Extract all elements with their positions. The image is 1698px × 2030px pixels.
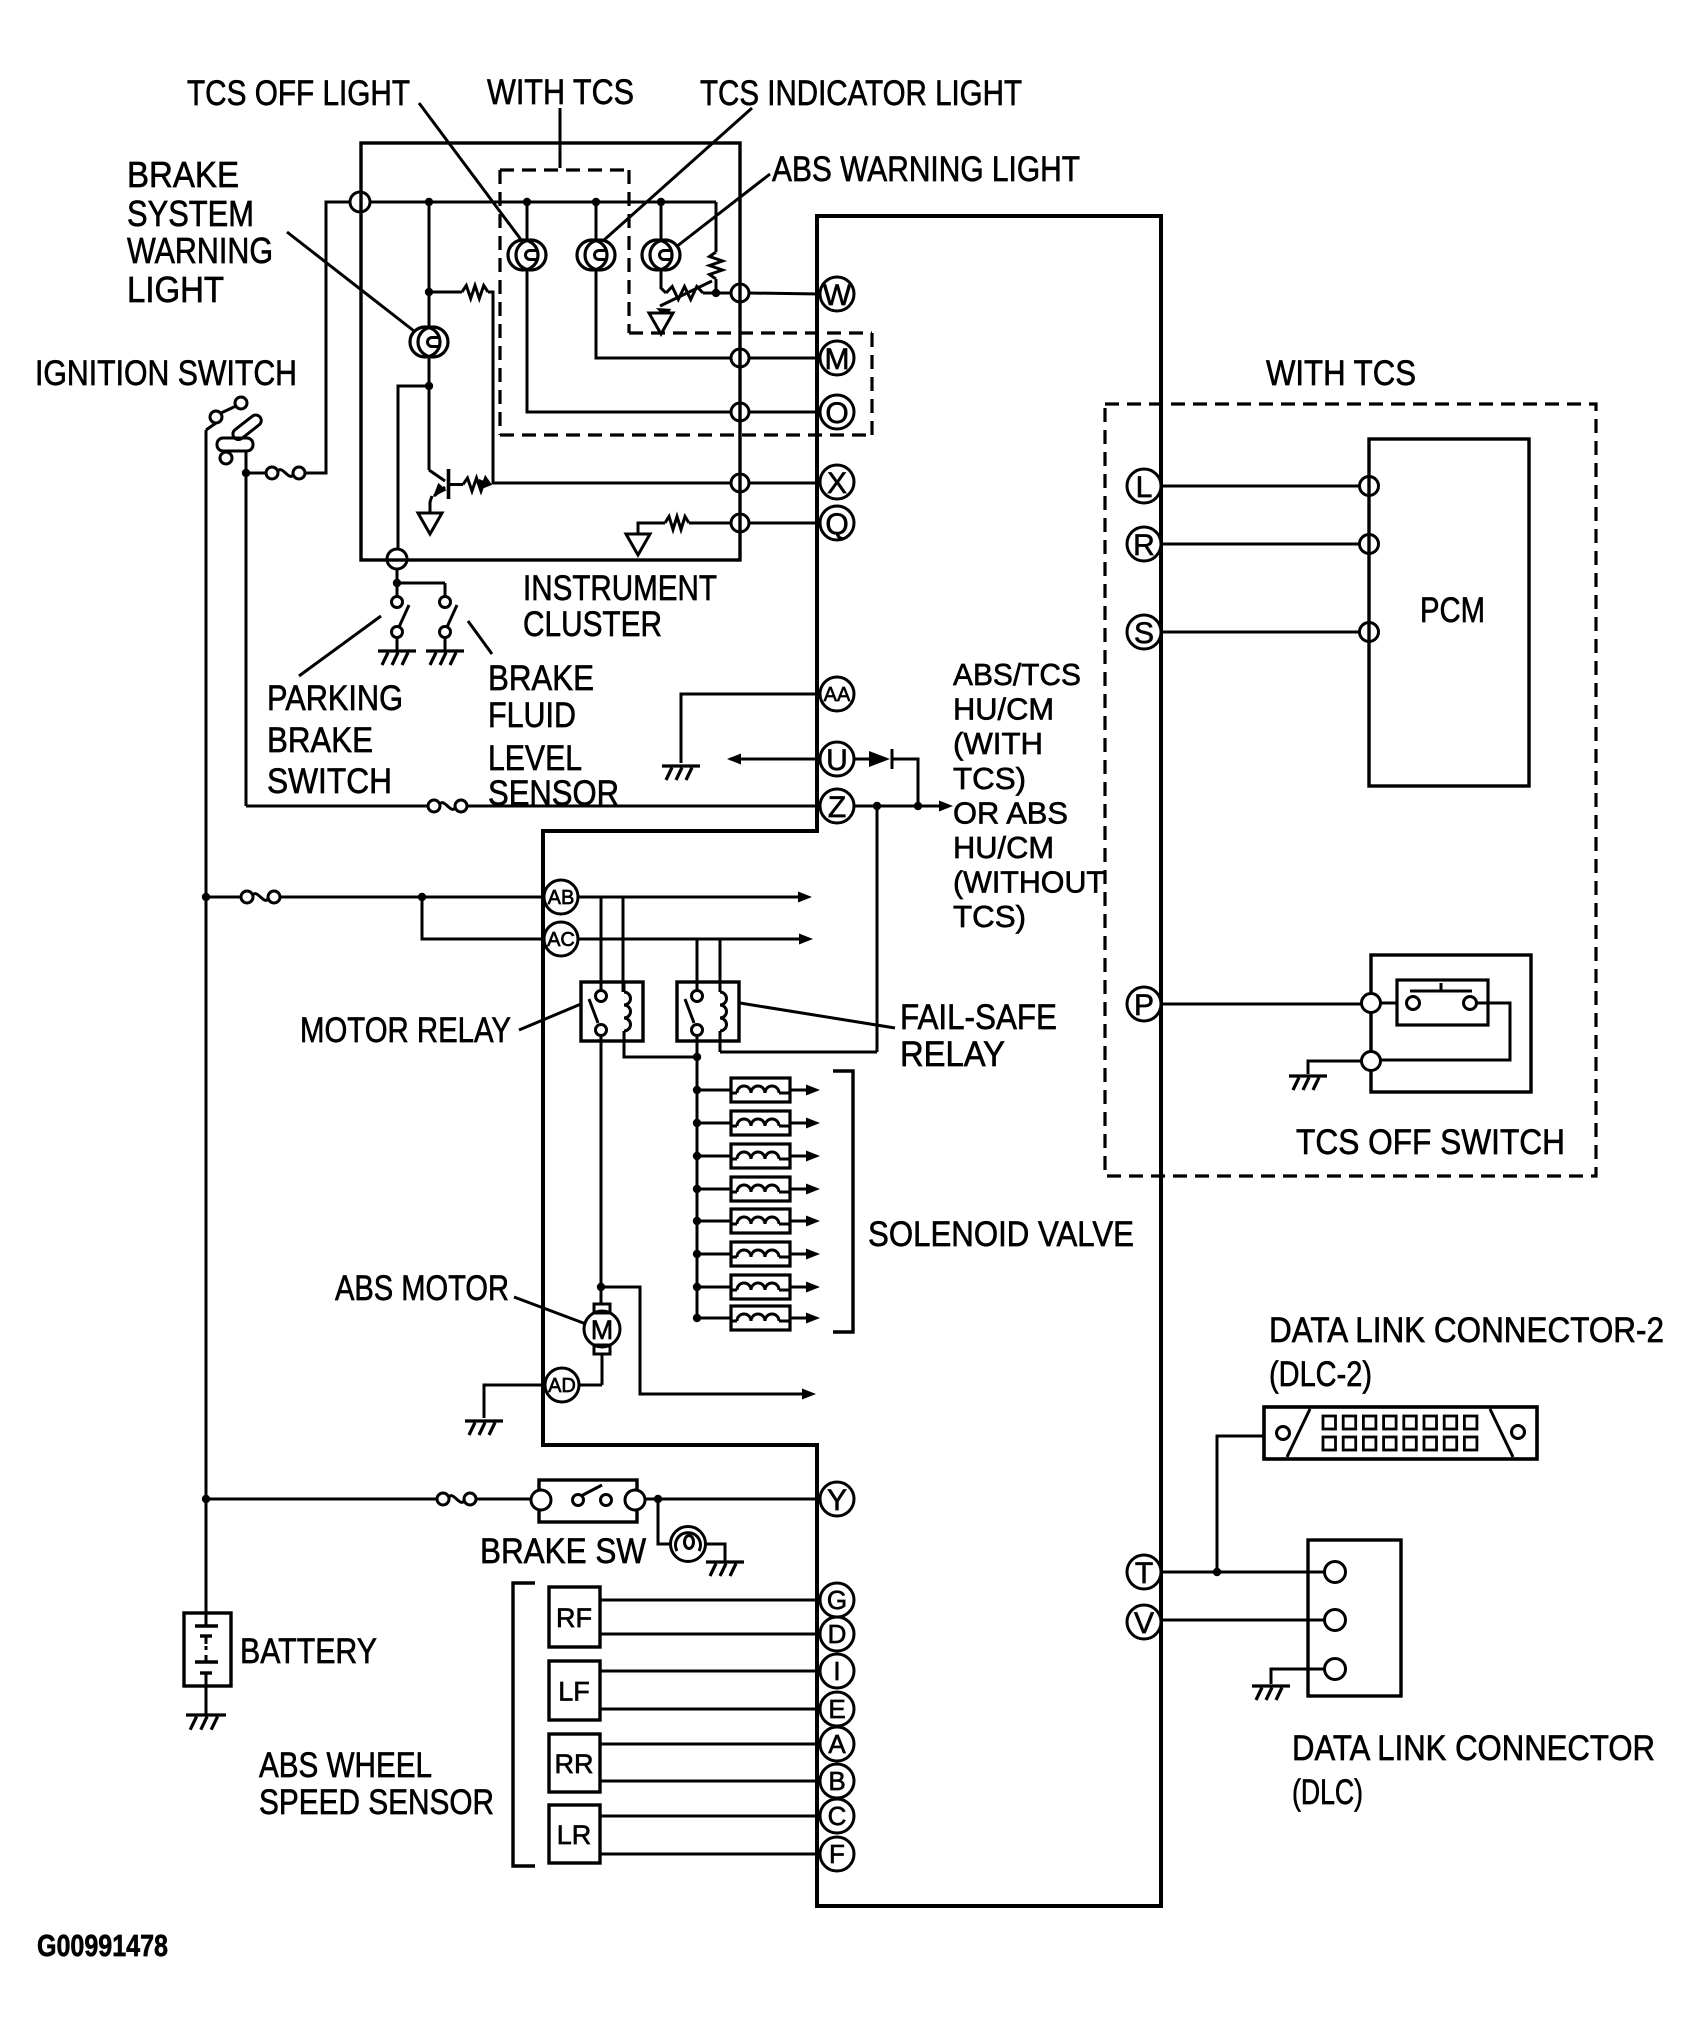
arrowhead solenoid 7 <box>806 1282 820 1293</box>
wire lamp supply bus <box>370 201 716 204</box>
junction solenoid 6 tap <box>693 1250 701 1258</box>
rheostat wiper <box>660 281 712 306</box>
wire connector to terminal Z <box>467 805 820 808</box>
wire to terminal Z <box>246 805 428 808</box>
wire lamp to transistor collector <box>428 356 431 470</box>
cluster pin Q row <box>731 514 749 532</box>
wire to TCS OFF light <box>526 202 529 241</box>
wire solenoid 2 output <box>790 1122 806 1125</box>
svg-text:S: S <box>1134 617 1154 650</box>
terminal AD <box>545 1368 579 1402</box>
wire RF sensor + to HU/CM <box>600 1599 820 1602</box>
svg-text:AA: AA <box>824 684 851 706</box>
parking brake switch <box>392 597 410 638</box>
DLC pin 1 <box>1325 1562 1346 1583</box>
terminal I <box>820 1654 854 1688</box>
terminal C <box>820 1799 854 1833</box>
solenoid valve 7 box <box>731 1275 790 1299</box>
solenoid valve group bracket <box>833 1071 853 1332</box>
lamp TCS INDICATOR LIGHT <box>577 240 615 270</box>
svg-text:(DLC-2): (DLC-2) <box>1269 1355 1372 1394</box>
wire to solenoid 6 <box>697 1253 731 1256</box>
wire TCS indicator light to M <box>596 269 731 358</box>
ground triangle (Q row) <box>626 534 650 555</box>
wheel speed sensor LF box <box>549 1661 600 1720</box>
svg-text:IGNITION SWITCH: IGNITION SWITCH <box>35 354 297 393</box>
junction parking brake tap <box>425 382 433 390</box>
svg-text:ABS WARNING LIGHT: ABS WARNING LIGHT <box>772 150 1080 189</box>
junction brake light tap <box>654 1495 662 1503</box>
arrowhead AB wire <box>798 892 812 903</box>
transistor emitter arrow <box>433 483 447 497</box>
wire to solenoid 1 <box>697 1089 731 1092</box>
DLC-2 connector <box>1264 1407 1537 1459</box>
svg-text:AD: AD <box>548 1375 576 1397</box>
cluster pin O row <box>731 403 749 421</box>
svg-text:Q: Q <box>825 508 848 541</box>
junction solenoid 4 tap <box>693 1185 701 1193</box>
wire TCS switch routing <box>1381 1003 1510 1060</box>
svg-text:ABS/TCS: ABS/TCS <box>953 657 1081 692</box>
wire Q pin to resistor <box>689 522 731 525</box>
arrowhead solenoid 6 <box>806 1249 820 1260</box>
svg-text:OR ABS: OR ABS <box>953 795 1068 830</box>
wheel speed sensor RF box <box>549 1587 600 1647</box>
wire resistor to ground <box>638 523 665 534</box>
chassis ground (AA) <box>662 766 700 780</box>
svg-text:SWITCH: SWITCH <box>267 762 392 801</box>
wire AB to relay coil <box>622 897 625 992</box>
svg-text:DATA LINK CONNECTOR: DATA LINK CONNECTOR <box>1292 1729 1655 1768</box>
wire to brake light <box>658 1499 671 1544</box>
wire RF sensor - to HU/CM <box>600 1633 820 1636</box>
wire terminal R to PCM <box>1161 543 1360 546</box>
wire ABS warning light to rheostat <box>661 269 666 293</box>
arrowhead AD row wire <box>802 1389 816 1400</box>
solenoid valve 5 coil <box>737 1217 779 1224</box>
junction T wire <box>1213 1568 1221 1576</box>
wire terminal AD to ground <box>484 1385 545 1418</box>
battery cell plates <box>195 1613 218 1686</box>
wire base lead <box>449 483 464 486</box>
svg-text:Y: Y <box>827 1484 847 1517</box>
ABS wheel speed sensor bracket <box>513 1583 535 1866</box>
wire ignition switch to instrument cluster <box>306 202 350 473</box>
callout line MOTOR RELAY <box>519 1004 581 1030</box>
svg-text:(WITH: (WITH <box>953 726 1043 761</box>
solenoid valve 4 coil <box>737 1185 779 1192</box>
PCM pin 1 <box>1360 477 1379 496</box>
terminal B <box>820 1764 854 1798</box>
rheostat resistor (illumination) <box>666 287 703 300</box>
brake switch contacts <box>531 1485 645 1510</box>
wire terminal U (to cluster side) <box>730 758 820 761</box>
wire battery to brake switch <box>206 1498 437 1501</box>
solenoid valve 6 box <box>731 1242 790 1266</box>
wire solenoid feed bus <box>696 1035 699 1318</box>
terminal L <box>1127 469 1161 504</box>
wire cluster to terminal Q <box>749 522 820 525</box>
solenoid valve 8 box <box>731 1306 790 1330</box>
wire TCS switch terminal to contact <box>1381 1002 1397 1005</box>
junction solenoid 1 tap <box>693 1086 701 1094</box>
PCM pin 2 <box>1360 535 1379 554</box>
chassis ground (fluid level sensor) <box>426 651 464 665</box>
cluster pin parking brake <box>387 549 407 569</box>
junction motor bypass <box>597 1283 605 1291</box>
junction lamp4 tap <box>425 198 433 206</box>
svg-text:TCS): TCS) <box>953 761 1026 796</box>
arrowhead solenoid 8 <box>806 1313 820 1324</box>
terminal AC <box>544 922 578 956</box>
wire to motor terminal <box>600 1287 603 1305</box>
svg-text:U: U <box>826 744 848 777</box>
wire bus to resistor <box>715 202 718 252</box>
callout line BRAKE SYSTEM WARNING LIGHT <box>287 232 414 331</box>
arrowhead solenoid 2 <box>806 1118 820 1129</box>
terminal P <box>1127 987 1161 1022</box>
wire terminal L to PCM <box>1161 485 1360 488</box>
wire brake light to ground <box>705 1544 725 1561</box>
junction ignition output <box>242 469 250 477</box>
junction switch node <box>393 579 401 587</box>
junction battery bus AB tap <box>202 893 210 901</box>
svg-text:WARNING: WARNING <box>127 230 273 271</box>
wire cluster to terminal O <box>749 411 820 414</box>
wire LF sensor + to HU/CM <box>600 1670 820 1673</box>
resistor R3 (Q row) <box>665 517 689 530</box>
svg-text:X: X <box>827 467 847 500</box>
svg-text:B: B <box>828 1766 845 1796</box>
svg-text:R: R <box>1133 529 1155 562</box>
wire base node to X pin <box>493 482 731 485</box>
resistor (ABS warning light) <box>710 252 723 279</box>
wire resistor to W node <box>715 279 718 293</box>
wire to brake system warning light <box>428 202 431 328</box>
wire terminal AA to ground <box>681 694 820 763</box>
rheostat wiper arrow <box>656 308 671 319</box>
wire motor to AD node <box>601 1354 604 1385</box>
wire LR sensor - to HU/CM <box>600 1853 820 1856</box>
wire terminal V to DLC <box>1161 1619 1325 1622</box>
terminal Y <box>820 1482 854 1517</box>
wire pin to switch node <box>396 569 399 583</box>
callout line WITH TCS <box>559 108 562 168</box>
solenoid valve 8 coil <box>737 1314 779 1321</box>
TCS OFF switch terminals <box>1362 994 1381 1071</box>
svg-text:D: D <box>828 1619 847 1649</box>
wire fail-safe coil return <box>720 1051 877 1054</box>
brake switch box <box>539 1480 637 1522</box>
junction W node <box>712 289 720 297</box>
terminal M <box>820 341 854 376</box>
battery box <box>184 1613 231 1686</box>
brake light lamp <box>671 1527 706 1562</box>
svg-text:BATTERY: BATTERY <box>240 1632 377 1671</box>
svg-text:G00991478: G00991478 <box>37 1928 168 1963</box>
wire fail-safe coil top lead <box>719 982 722 992</box>
wire parking brake switch to ground <box>396 637 399 651</box>
terminal S <box>1127 615 1161 650</box>
wire AB to motor relay <box>578 896 623 899</box>
wire solenoid 4 output <box>790 1188 806 1191</box>
solenoid valve 5 box <box>731 1209 790 1233</box>
callout line ABS WARNING LIGHT <box>676 174 770 247</box>
in-line connector (ignition feed) <box>266 467 305 479</box>
svg-text:ABS WHEEL: ABS WHEEL <box>259 1746 432 1785</box>
junction solenoid 5 tap <box>693 1217 701 1225</box>
svg-text:SPEED SENSOR: SPEED SENSOR <box>259 1783 494 1822</box>
svg-text:RELAY: RELAY <box>900 1035 1005 1074</box>
solenoid valve 7 coil <box>737 1283 779 1290</box>
svg-text:LIGHT: LIGHT <box>127 269 224 310</box>
solenoid valve 3 box <box>731 1144 790 1168</box>
svg-text:T: T <box>1135 1557 1153 1590</box>
lamp BRAKE SYSTEM WARNING LIGHT <box>410 327 448 357</box>
terminal AA <box>820 677 854 711</box>
svg-text:RF: RF <box>556 1603 592 1633</box>
wire solenoid 5 output <box>790 1220 806 1223</box>
wire AC to fail-safe contact <box>696 939 699 991</box>
wire to solenoid 4 <box>697 1188 731 1191</box>
svg-text:M: M <box>591 1315 614 1345</box>
motor relay switch <box>589 991 607 1036</box>
svg-text:MOTOR RELAY: MOTOR RELAY <box>300 1011 511 1050</box>
wire solenoid 1 output <box>790 1089 806 1092</box>
wire TCS OFF light to O <box>527 269 731 412</box>
wire ignition to Z row <box>245 473 248 806</box>
terminal O <box>820 395 854 430</box>
wire solenoid 3 output <box>790 1155 806 1158</box>
wire emitter to ground <box>430 496 432 513</box>
junction solenoid 7 tap <box>693 1283 701 1291</box>
svg-text:L: L <box>1136 471 1153 504</box>
chassis ground (AD) <box>465 1421 503 1435</box>
svg-text:ABS MOTOR: ABS MOTOR <box>335 1269 509 1308</box>
TCS OFF switch box <box>1371 955 1531 1092</box>
in-line connector (Z wire) <box>428 800 467 812</box>
terminal Q <box>820 506 854 541</box>
svg-text:TCS OFF LIGHT: TCS OFF LIGHT <box>187 74 410 113</box>
wire motor bypass output <box>601 1287 802 1394</box>
wire to connector <box>246 472 266 475</box>
wheel speed sensor LR box <box>549 1805 600 1863</box>
svg-text:INSTRUMENT: INSTRUMENT <box>523 569 717 608</box>
brake fluid level sensor switch <box>440 597 458 638</box>
solenoid valve 1 coil <box>737 1086 779 1093</box>
terminal F <box>820 1837 854 1871</box>
wire ignition to battery feed <box>206 423 216 430</box>
svg-text:BRAKE: BRAKE <box>488 659 594 698</box>
wire R1 to base node <box>488 292 493 484</box>
callout line TCS INDICATOR LIGHT <box>604 108 752 240</box>
svg-text:(WITHOUT: (WITHOUT <box>953 865 1105 900</box>
ground triangle (rheostat) <box>649 313 673 334</box>
wire terminal S to PCM <box>1161 631 1360 634</box>
diode (U to Z) <box>854 749 892 769</box>
cluster pin X row <box>731 474 749 492</box>
wire LR sensor + to HU/CM <box>600 1815 820 1818</box>
in-line connector (brake switch) <box>437 1493 476 1505</box>
wire rheostat to W pin <box>703 292 731 295</box>
arrowhead AC wire <box>799 934 813 945</box>
terminal U <box>820 742 854 777</box>
junction AC tap <box>418 893 426 901</box>
arrowhead U wire <box>727 754 741 765</box>
DLC pin 3 <box>1325 1659 1346 1680</box>
wire to parking brake switch <box>398 386 429 549</box>
terminal R <box>1127 527 1161 562</box>
svg-text:M: M <box>825 343 850 376</box>
wire to TCS indicator light <box>595 202 598 241</box>
terminal E <box>820 1692 854 1726</box>
wire connector to terminal AB <box>280 896 544 899</box>
svg-text:LR: LR <box>557 1820 592 1850</box>
junction battery bus Y tap <box>202 1495 210 1503</box>
arrowhead solenoid 4 <box>806 1184 820 1195</box>
wire AB row output <box>623 896 806 899</box>
svg-text:W: W <box>823 279 852 312</box>
svg-text:WITH TCS: WITH TCS <box>487 73 634 112</box>
motor relay box <box>581 982 643 1041</box>
PCM pin 3 <box>1360 623 1379 642</box>
lamp TCS OFF LIGHT <box>508 240 546 270</box>
wire battery positive bus <box>205 430 208 1613</box>
resistor R2 (base) <box>463 478 490 491</box>
svg-text:LF: LF <box>558 1677 590 1707</box>
TCS OFF switch inner box <box>1397 980 1488 1025</box>
callout line BRAKE FLUID LEVEL SENSOR <box>468 621 492 654</box>
svg-text:SOLENOID VALVE: SOLENOID VALVE <box>868 1215 1134 1254</box>
svg-text:CLUSTER: CLUSTER <box>523 605 662 644</box>
svg-text:TCS): TCS) <box>953 899 1026 934</box>
wire to solenoid 8 <box>697 1317 731 1320</box>
ground triangle (transistor) <box>418 513 442 534</box>
motor relay coil <box>624 992 631 1031</box>
fail-safe relay switch <box>685 991 703 1036</box>
ABS/TCS HU/CM box <box>543 216 1161 1906</box>
wire AC row output <box>720 938 807 941</box>
junction solenoid 8 tap <box>693 1314 701 1322</box>
wire RR sensor + to HU/CM <box>600 1743 820 1746</box>
wire terminal T to DLC <box>1161 1571 1325 1574</box>
wire DLC pin 3 to ground <box>1271 1669 1325 1684</box>
wire terminal P to TCS OFF switch <box>1161 1003 1362 1006</box>
resistor R1 (bias) <box>462 286 488 299</box>
arrowhead Z wire <box>939 801 953 812</box>
wire fail-safe coil bottom lead <box>719 1031 722 1052</box>
svg-text:(DLC): (DLC) <box>1292 1773 1363 1812</box>
chassis ground (parking brake switch) <box>378 651 416 665</box>
wire cluster to terminal W <box>749 293 820 294</box>
svg-text:HU/CM: HU/CM <box>953 830 1054 865</box>
terminal V <box>1127 1605 1161 1640</box>
DLC pin 2 <box>1325 1610 1346 1631</box>
callout line TCS OFF LIGHT <box>419 103 522 241</box>
wire AC to fail-safe coil <box>719 939 722 992</box>
wire to resistor R1 <box>429 291 462 294</box>
callout line FAIL-SAFE RELAY <box>740 1003 895 1028</box>
wire to solenoid 5 <box>697 1220 731 1223</box>
svg-text:AB: AB <box>548 887 575 909</box>
chassis ground (battery) <box>186 1715 226 1730</box>
junction solenoid 3 tap <box>693 1152 701 1160</box>
solenoid valve 6 coil <box>737 1250 779 1257</box>
cluster pin M row <box>731 349 749 367</box>
wire Z to fail-safe relay coil <box>876 806 879 1052</box>
svg-text:FLUID: FLUID <box>488 696 576 735</box>
callout line PARKING BRAKE SWITCH <box>299 616 381 676</box>
solenoid valve 3 coil <box>737 1152 779 1159</box>
wire to terminal AC <box>422 897 544 939</box>
junction lamp3 tap <box>657 198 665 206</box>
ABS motor M1 <box>584 1304 620 1354</box>
arrowhead base node <box>479 479 493 490</box>
svg-text:FAIL-SAFE: FAIL-SAFE <box>900 998 1057 1037</box>
svg-text:RR: RR <box>555 1749 594 1779</box>
wire solenoid 8 output <box>790 1317 806 1320</box>
ignition switch symbol <box>210 397 263 464</box>
arrowhead solenoid 5 <box>806 1216 820 1227</box>
wire coil top lead <box>623 982 626 992</box>
wire terminal Z output <box>854 805 940 808</box>
wire solenoid 7 output <box>790 1286 806 1289</box>
wire to parking brake contact <box>396 583 399 597</box>
wire ignition output <box>245 451 248 473</box>
transistor Q1 (brake warning driver) <box>429 469 449 499</box>
wire terminal AD to motor <box>579 1384 602 1387</box>
junction Z node <box>914 802 922 810</box>
junction solenoid 2 tap <box>693 1119 701 1127</box>
wire to solenoid 3 <box>697 1155 731 1158</box>
svg-text:TCS OFF SWITCH: TCS OFF SWITCH <box>1296 1123 1565 1162</box>
svg-text:TCS INDICATOR LIGHT: TCS INDICATOR LIGHT <box>700 74 1022 113</box>
dashed WITH TCS box (right) <box>1105 404 1596 1176</box>
svg-text:DATA LINK CONNECTOR-2: DATA LINK CONNECTOR-2 <box>1269 1311 1664 1350</box>
terminal W <box>820 277 854 312</box>
junction Z branch <box>873 802 881 810</box>
terminal Z <box>820 789 854 824</box>
wire to brake fluid level sensor <box>397 582 445 585</box>
svg-text:E: E <box>828 1694 845 1724</box>
wire battery to connector <box>206 896 241 899</box>
terminal A <box>820 1727 854 1761</box>
solenoid valve 2 coil <box>737 1119 779 1126</box>
svg-text:PARKING: PARKING <box>267 679 403 718</box>
svg-text:I: I <box>833 1656 840 1686</box>
arrowhead solenoid 3 <box>806 1151 820 1162</box>
wire connector to brake switch <box>476 1498 531 1501</box>
terminal AB <box>544 880 578 914</box>
svg-text:O: O <box>825 397 848 430</box>
wire to solenoid 7 <box>697 1286 731 1289</box>
svg-text:C: C <box>828 1801 847 1831</box>
PCM box <box>1369 439 1529 786</box>
wire to brake fluid level contact <box>444 583 447 597</box>
cluster supply pin <box>350 192 370 212</box>
wire solenoid 6 output <box>790 1253 806 1256</box>
dashed WITH TCS box (instrument cluster) <box>500 170 872 435</box>
chassis ground (DLC) <box>1252 1686 1290 1700</box>
svg-text:WITH TCS: WITH TCS <box>1266 354 1416 393</box>
wire diode to Z node <box>892 759 918 806</box>
svg-text:P: P <box>1134 989 1154 1022</box>
wire AC to fail-safe relay <box>578 938 720 941</box>
wire motor relay coil to node <box>624 1031 697 1057</box>
svg-text:PCM: PCM <box>1420 591 1485 630</box>
terminal T <box>1127 1555 1161 1590</box>
svg-text:F: F <box>829 1839 845 1869</box>
